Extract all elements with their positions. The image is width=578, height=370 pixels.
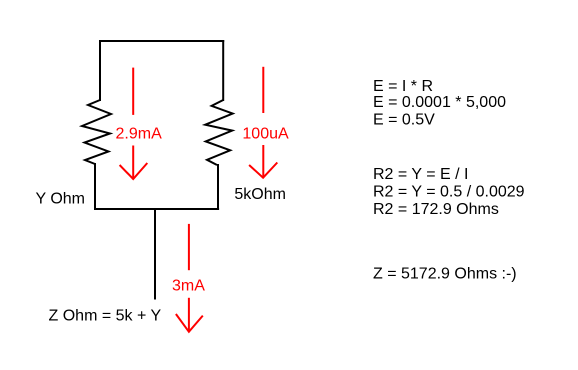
current arrow I3 head xyxy=(176,298,203,332)
svg-text:E = I * R: E = I * R xyxy=(373,78,433,95)
wire left bottom lead xyxy=(94,163,96,210)
svg-text:Z = 5172.9 Ohms :-): Z = 5172.9 Ohms :-) xyxy=(373,265,517,282)
svg-text:R2 = 172.9 Ohms: R2 = 172.9 Ohms xyxy=(373,201,499,218)
resistor R2 (5kOhm) zigzag xyxy=(205,100,233,165)
wire right bottom lead xyxy=(217,164,219,210)
wire top horizontal xyxy=(99,40,224,42)
current arrow I2 upper segment xyxy=(262,67,264,113)
current arrow I1 upper segment xyxy=(132,68,134,115)
wire bottom horizontal xyxy=(94,208,219,210)
svg-text:Y Ohm: Y Ohm xyxy=(36,191,86,208)
wire right vertical lead xyxy=(222,40,224,101)
current arrow I2 head xyxy=(249,145,277,178)
wire center bottom stem xyxy=(154,209,156,300)
svg-text:100uA: 100uA xyxy=(242,126,289,143)
svg-text:R2 = Y = 0.5 / 0.0029: R2 = Y = 0.5 / 0.0029 xyxy=(373,184,525,201)
svg-text:Z Ohm = 5k + Y: Z Ohm = 5k + Y xyxy=(49,308,162,325)
wire left vertical lead xyxy=(99,40,101,101)
svg-text:R2 = Y = E / I: R2 = Y = E / I xyxy=(373,166,468,183)
svg-text:E = 0.0001 * 5,000: E = 0.0001 * 5,000 xyxy=(373,94,506,111)
current arrow I1 head xyxy=(120,146,148,180)
svg-text:2.9mA: 2.9mA xyxy=(116,126,163,143)
resistor R1 (Y Ohm) zigzag xyxy=(82,100,111,164)
current arrow I3 upper segment xyxy=(188,224,190,270)
svg-text:3mA: 3mA xyxy=(172,278,205,295)
svg-text:E = 0.5V: E = 0.5V xyxy=(373,112,435,129)
svg-text:5kOhm: 5kOhm xyxy=(234,186,286,203)
